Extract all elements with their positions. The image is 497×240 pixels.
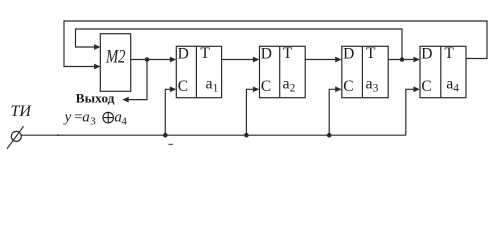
flip-flop U4 box (cell a4) (420, 46, 466, 97)
svg-text:М2: М2 (105, 47, 126, 68)
wire: FF a2 output to FF a3 D input (305, 57, 341, 63)
wire: clock riser to FF a1 C input (165, 86, 176, 135)
svg-text:a2: a2 (283, 76, 296, 95)
node: clock junction dot at FF a3 riser (327, 133, 332, 138)
svg-text:a1: a1 (206, 76, 219, 95)
wire: inner feedback from node between FF a3 and FF a4 over the top to M2 upper input (76, 29, 403, 60)
node: clock junction dot at FF a2 riser (244, 133, 249, 138)
svg-text:a3: a3 (366, 76, 379, 95)
wire: output tap down and left to Vyhod arrow (122, 60, 147, 103)
svg-text:D: D (261, 46, 272, 63)
svg-text:D: D (178, 46, 189, 63)
svg-text:T: T (200, 45, 210, 62)
flip-flop U1 box (cell a1) (176, 46, 221, 97)
svg-text:C: C (343, 78, 353, 95)
svg-text:y: y (63, 110, 72, 126)
wire: clock riser to FF a2 C input (246, 86, 259, 135)
node: output junction dot on M2 output (145, 57, 150, 62)
svg-text:T: T (444, 45, 454, 62)
svg-text:Выход: Выход (76, 92, 116, 106)
svg-text:4: 4 (121, 116, 127, 128)
label formula y = a3 xor a4 (63, 110, 128, 128)
svg-text:D: D (343, 46, 354, 63)
flip-flop U3 box (cell a3) (342, 46, 388, 97)
svg-text:3: 3 (90, 116, 96, 128)
node: feedback tap junction between FF a3 and FF a4 (400, 57, 405, 62)
svg-text:T: T (366, 45, 376, 62)
wire: clock bus line along the bottom (21, 134, 406, 144)
svg-text:a: a (82, 110, 90, 126)
wire: outer feedback loop from FF a4 output up over the top to M2 lower input (64, 21, 487, 69)
block M2 modulo-2 adder (100, 34, 130, 92)
node: clock junction dot at FF a1 riser (163, 133, 168, 138)
flip-flop U2 box (cell a2) (260, 46, 306, 97)
svg-text:C: C (261, 78, 271, 95)
wire: M2 output to FF a1 D input (131, 57, 177, 63)
svg-text:D: D (421, 46, 432, 63)
wire: FF a3 output to FF a4 D input (388, 57, 420, 63)
clock source symbol: circle with slash (7, 126, 24, 149)
wire: clock riser to FF a3 C input (329, 86, 341, 135)
wire: FF a1 output to FF a2 D input (222, 57, 260, 63)
svg-text:ТИ: ТИ (11, 103, 33, 120)
svg-text:C: C (178, 78, 188, 95)
svg-text:C: C (421, 78, 431, 95)
svg-text:T: T (283, 45, 293, 62)
svg-text:a4: a4 (446, 76, 459, 95)
wire: clock riser to FF a4 C input (406, 86, 420, 135)
